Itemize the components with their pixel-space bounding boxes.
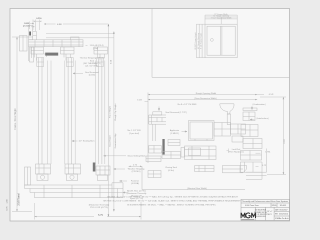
title block: revision cell	[275, 214, 288, 216]
callout: thermal stripping note	[80, 57, 105, 68]
svg-text:REV: REV	[275, 214, 278, 216]
svg-text:As Per Arch: As Per Arch	[279, 217, 289, 220]
plan view: panel stile profile	[181, 146, 216, 160]
svg-text:(4.205A): (4.205A)	[131, 182, 139, 185]
head mounting clip	[71, 37, 80, 40]
svg-text:1.781: 1.781	[265, 152, 271, 154]
elevation: door handle	[211, 39, 214, 42]
plan view: right side dimension 0.72	[256, 165, 267, 167]
elevation: height dimension lines	[196, 24, 205, 58]
elevation: height dimension texts (rotated)	[194, 32, 203, 50]
glazing bead hook panel 2	[66, 58, 73, 67]
svg-text:Rough Op. Height: Rough Op. Height	[114, 103, 117, 120]
svg-text:PVC-U OR (4.7TD): PVC-U OR (4.7TD)	[90, 207, 108, 209]
callout: seal screened note	[73, 71, 100, 77]
plan view: door dimension width	[148, 97, 257, 100]
svg-text:(alt. 1/2" BHU): (alt. 1/2" BHU)	[85, 65, 99, 68]
elevation: width dimension lines	[205, 15, 237, 24]
plan view: fin callout	[127, 130, 141, 135]
plan view: bottom boundary line	[142, 166, 245, 189]
plan view: jamb depth dimension 6 1/8	[137, 100, 148, 102]
svg-text:1.94: 1.94	[7, 199, 9, 204]
head extension lines to height dims	[46, 33, 114, 37]
callout: weather stripping	[114, 167, 146, 173]
plan view: sill track connector piece	[162, 152, 181, 159]
head detail: small dimension lines top-left	[30, 20, 42, 32]
svg-text:(0.3in): (0.3in)	[168, 170, 174, 172]
svg-text:(Combination): (Combination)	[252, 103, 265, 106]
head exterior trim fin	[20, 36, 28, 52]
vertical section: height dimension label	[14, 108, 17, 129]
svg-text:77 1/2" Guaranteed Width: 77 1/2" Guaranteed Width	[211, 16, 232, 19]
plan view: right short dimension 6 1/8	[257, 94, 274, 96]
notes under plan view	[103, 195, 242, 206]
callout: fastener	[120, 179, 140, 185]
head leg dark gasket	[29, 32, 31, 36]
plan view: applicator callout	[170, 129, 187, 135]
svg-text:Thermal Stripping (270.05): Thermal Stripping (270.05)	[80, 57, 105, 60]
plan view: closing seal callout	[165, 167, 177, 172]
title block: outer box	[241, 199, 290, 220]
svg-text:No.8 x 1/2" PH SMS: No.8 x 1/2" PH SMS	[178, 104, 197, 106]
svg-text:SHOWN: 35-21 1/4" LOWE PANES :: SHOWN: 35-21 1/4" LOWE PANES : SE OD ***…	[103, 199, 242, 202]
title block: date cell	[275, 208, 288, 211]
callout: glass setting block	[104, 154, 147, 157]
plan view: left jamb profile	[149, 112, 166, 124]
svg-text:05/02/2014: 05/02/2014	[279, 214, 288, 216]
title block: scale cell	[267, 211, 273, 216]
plan view: lower track profile left	[195, 166, 214, 172]
callout: elastomer pvc note	[89, 203, 110, 209]
callout: glazing spec note	[86, 45, 104, 50]
plan view: lock rail callout	[227, 149, 244, 154]
svg-text:(1 MECI): (1 MECI)	[170, 133, 179, 135]
plan view: combination callout	[251, 103, 266, 110]
plan view: dark pile seal	[162, 139, 164, 155]
sill: nailing fin left	[25, 167, 31, 185]
sill: panel bottom corner cluster 1	[36, 164, 51, 181]
sill extrusion body	[25, 183, 124, 198]
svg-text:5.75: 5.75	[98, 214, 103, 217]
svg-text:(0.180): (0.180)	[89, 74, 96, 76]
plan view: screw callout	[158, 104, 197, 114]
plan view: left wall line	[147, 93, 149, 164]
svg-text:80 3/8" Frame Height: 80 3/8" Frame Height	[194, 32, 197, 50]
plan view: lower jamb profiles	[146, 146, 161, 178]
sill width dimension 5.75	[35, 202, 142, 220]
svg-text:1/4" = 1′: 1/4" = 1′	[267, 211, 273, 213]
svg-text:Frame / Door Height: Frame / Door Height	[14, 108, 17, 129]
vertical section: overall height dimension line	[12, 37, 33, 211]
plan view: 6.93 label rotated	[284, 139, 286, 144]
travel dimension label (rotated, dark)	[7, 193, 21, 210]
svg-text:Applicator: Applicator	[170, 129, 180, 132]
callout: aluminum sill note	[123, 189, 147, 200]
svg-text:Fastener: Fastener	[131, 179, 140, 182]
plan view: door handle plan shape	[220, 104, 234, 125]
svg-text:4000 Torre Door: 4000 Torre Door	[245, 204, 259, 207]
svg-text:ALUM. SILL (4.7TD): ALUM. SILL (4.7TD)	[127, 189, 146, 192]
sheet paper	[10, 9, 290, 222]
svg-text:(Elastomer Thermally: (Elastomer Thermally	[127, 192, 148, 195]
glass panel vertical lines pair 3	[95, 58, 105, 165]
plan view: interlockers callout	[250, 117, 269, 120]
sill: panel bottom corner cluster 3	[96, 166, 110, 181]
section inner dimension labels (rotated)	[109, 59, 118, 148]
svg-text:[1 lbf]: [1 lbf]	[93, 48, 99, 50]
head: panel top corner cluster 3	[94, 47, 108, 61]
glazing bead hook panel 3	[97, 58, 104, 67]
elevation: width dimension texts	[211, 13, 232, 20]
title block: logo tagline	[241, 218, 254, 221]
svg-text:(276 MO): (276 MO)	[132, 171, 141, 173]
plan view: interlock stile box	[189, 121, 215, 141]
glass panel vertical lines pair 2	[65, 58, 75, 165]
svg-text:SHT 1: SHT 1	[268, 214, 272, 216]
plan view: overall depth dimension line 6.93	[260, 97, 286, 175]
svg-text:(Interlockers): (Interlockers)	[256, 117, 268, 120]
plan view: lower track profile right	[222, 166, 246, 173]
callout: insulating glass	[72, 140, 95, 143]
plan view: right side dimension 1.781	[256, 152, 272, 154]
plan view: right jamb cluster	[241, 112, 267, 179]
title block: scale note cell	[275, 217, 289, 220]
svg-text:1/2" Sealing Bars: 1/2" Sealing Bars	[79, 140, 95, 143]
glass panel vertical lines pair 1	[38, 58, 51, 165]
title block: series row	[245, 204, 286, 207]
head: panel top corner cluster 1	[31, 47, 47, 61]
svg-text:0.250: 0.250	[36, 18, 42, 20]
svg-text:Thermally and Performance-rate: Thermally and Performance-rated Glass Do…	[242, 200, 288, 203]
plan view: right jamb header lines	[243, 108, 257, 111]
plan view: jamb channel legs	[153, 124, 155, 141]
title block: project title row	[242, 200, 288, 203]
plan view: 0.70 dimension	[129, 165, 142, 167]
svg-text:(Nominal Size Width): (Nominal Size Width)	[187, 187, 207, 190]
head: weatherstrip dark blob	[45, 53, 58, 56]
svg-text:2 5/8 Travel: 2 5/8 Travel	[18, 193, 21, 205]
head frame left end leg	[29, 26, 37, 40]
head jamb face below band	[30, 47, 34, 62]
title block: MGM logo	[241, 213, 255, 218]
svg-text:82" Rough Opening: 82" Rough Opening	[198, 33, 200, 49]
svg-text:8/10/2007: 8/10/2007	[280, 209, 288, 211]
svg-text:(Elastomer Thermally): (Elastomer Thermally)	[89, 203, 110, 206]
elevation: door frame	[205, 24, 237, 58]
plan view: nominal size width label	[187, 187, 207, 190]
svg-text:IN SCREEN PANES : SE MULL ** W: IN SCREEN PANES : SE MULL ** WALL ** NAT…	[127, 203, 216, 206]
head frame left side below band	[29, 47, 32, 61]
elevation: meeting stile divider	[220, 26, 222, 55]
sill: dark pile weatherstrip	[93, 163, 96, 172]
svg-text:Weather Stripping: Weather Stripping	[128, 167, 145, 170]
svg-text:Guaranteed Hgt: Guaranteed Hgt	[114, 133, 117, 148]
head frame extrusion band	[29, 40, 84, 47]
title block: address cell	[254, 209, 268, 219]
section inner height dimension lines	[108, 24, 115, 217]
svg-text:SD-401: SD-401	[280, 205, 286, 207]
svg-text:Glass Setting Block: Glass Setting Block	[128, 154, 147, 157]
svg-text:Door Height: Door Height	[109, 135, 112, 147]
svg-text:(Print Hardware): (Print Hardware)	[228, 150, 244, 153]
sill: panel bottom corner cluster 2	[65, 164, 81, 181]
svg-text:6′ 10" Frame Height: 6′ 10" Frame Height	[200, 33, 203, 49]
head detail: overall width dimension 4.58	[44, 23, 108, 26]
svg-text:Seal Screened: Seal Screened	[85, 71, 99, 74]
svg-text:CITY OF INDUSTRY: CITY OF INDUSTRY	[254, 214, 268, 216]
svg-text:DWG: DWG	[272, 205, 277, 207]
plan view: rough opening width dimension	[148, 92, 257, 95]
view separator lines	[152, 9, 290, 78]
svg-text:(1 per leaf): (1 per leaf)	[129, 132, 139, 135]
head: panel top corner cluster 2	[61, 47, 75, 61]
svg-text:SHOWN: 35-21 1/4" LOWE PANES :: SHOWN: 35-21 1/4" LOWE PANES : SE OD ***…	[107, 195, 238, 198]
plan view: meeting stile cluster	[168, 123, 246, 146]
svg-text:Seal Screened (1 TYP): Seal Screened (1 TYP)	[165, 111, 187, 114]
svg-text:0.75: 0.75	[7, 206, 9, 211]
head detail: small dimension texts top-left	[23, 18, 42, 27]
glazing bead hook panel 1	[37, 58, 44, 67]
svg-text:Panel Height: Panel Height	[109, 106, 112, 118]
